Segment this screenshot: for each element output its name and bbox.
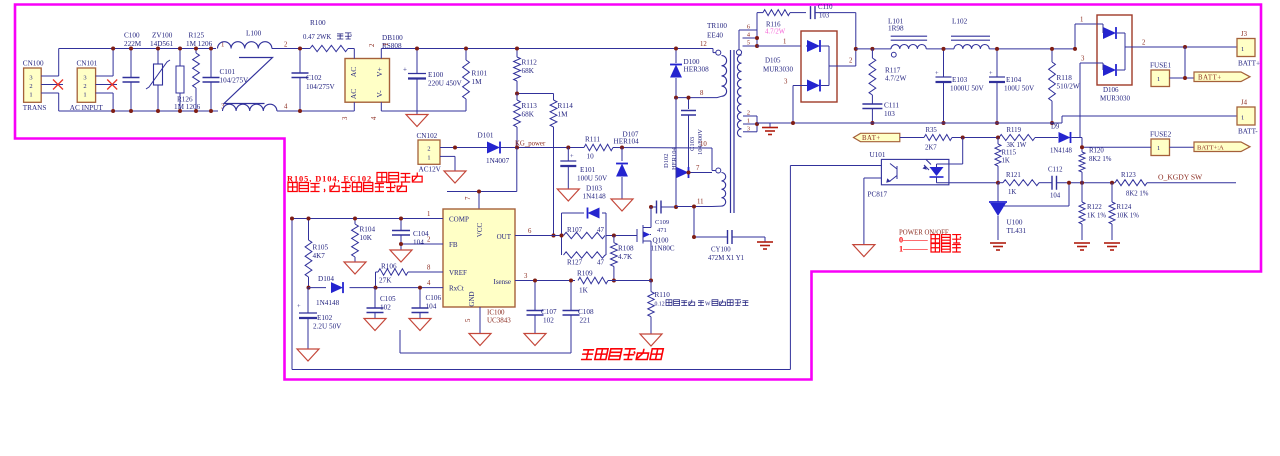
svg-text:KG_power: KG_power <box>515 141 546 148</box>
svg-text:R100: R100 <box>310 19 326 27</box>
wire opto emitter <box>864 177 882 179</box>
svg-text:68K: 68K <box>522 67 535 75</box>
svg-text:12: 12 <box>700 41 707 48</box>
resistor R118 <box>1051 49 1053 62</box>
svg-text:V-: V- <box>375 90 384 98</box>
svg-text:222M: 222M <box>124 40 142 48</box>
electrolytic capacitor E100 <box>416 49 418 74</box>
junction sec stub4 <box>755 36 759 40</box>
svg-text:R127: R127 <box>567 259 583 267</box>
diode D9 <box>1059 132 1071 143</box>
junction C101 bottom <box>209 109 213 113</box>
svg-text:HER104: HER104 <box>671 147 678 171</box>
svg-text:1N4148: 1N4148 <box>316 299 340 307</box>
wire R114 down to OUT row <box>553 127 555 236</box>
svg-text:1———: 1——— <box>899 245 928 254</box>
ground E101 <box>557 189 579 201</box>
resistor R35 <box>924 135 952 141</box>
wire VREF row <box>408 271 443 273</box>
junction C102 top <box>298 47 302 51</box>
electrolytic capacitor E103 <box>943 49 945 77</box>
junction pin11 <box>692 205 696 209</box>
svg-text:R114: R114 <box>558 102 574 110</box>
svg-text:3: 3 <box>784 79 788 86</box>
wire D9 node down <box>1081 138 1083 151</box>
resistor R104 <box>354 219 356 225</box>
resistor R100 <box>310 45 348 51</box>
svg-text:1K: 1K <box>1002 158 1010 165</box>
svg-text:D106: D106 <box>1103 86 1119 94</box>
svg-text:3: 3 <box>342 116 349 120</box>
svg-text:CN100: CN100 <box>23 60 44 68</box>
connector CN100 <box>24 68 42 102</box>
capacitor C100 <box>130 49 132 78</box>
svg-text:3: 3 <box>83 74 86 81</box>
wire COMP row <box>292 218 443 220</box>
svg-text:68K: 68K <box>522 111 535 119</box>
wire CY100 row <box>694 236 728 238</box>
junction E103 bottom <box>942 121 946 125</box>
svg-text:1M: 1M <box>558 111 569 119</box>
junction R101 top <box>464 47 468 51</box>
svg-text:1M 1206: 1M 1206 <box>186 40 213 48</box>
svg-text:1: 1 <box>1241 114 1244 121</box>
wire DB100 AC top stem <box>353 49 355 59</box>
junction E104 bottom <box>995 121 999 125</box>
svg-text:VCC: VCC <box>476 222 484 237</box>
capacitor C110 <box>811 6 816 19</box>
wire secondary top stubs <box>739 29 757 31</box>
earth ground R122 <box>1074 242 1090 244</box>
junction C103 top <box>687 96 691 100</box>
junction KG R113 <box>515 146 519 150</box>
svg-text:104: 104 <box>426 303 437 311</box>
wire CN100 pin1 <box>41 92 59 94</box>
svg-text:10K 1%: 10K 1% <box>1117 213 1140 220</box>
svg-text:4K7: 4K7 <box>313 252 326 260</box>
wire D105 out <box>837 65 856 67</box>
svg-text:FUSE1: FUSE1 <box>1150 62 1172 70</box>
junction R120 bottom <box>1080 181 1084 185</box>
junction R115 bottom <box>996 181 1000 185</box>
svg-text:471: 471 <box>657 227 667 234</box>
junction CY100 left <box>692 235 696 239</box>
svg-text:PC817: PC817 <box>868 191 888 199</box>
svg-text:0.12: 0.12 <box>655 302 665 308</box>
svg-text:3: 3 <box>747 126 750 133</box>
capacitor C105 <box>374 288 376 308</box>
svg-text:HER104: HER104 <box>614 138 640 146</box>
svg-text:+: + <box>570 153 574 160</box>
junction C103 bottom <box>687 171 691 175</box>
svg-text:UC3843: UC3843 <box>487 317 511 325</box>
op-amp/controller IC100 UC3843 <box>443 209 515 307</box>
wire D100 column down <box>675 98 677 207</box>
ground C106 <box>409 319 431 331</box>
capacitor C101 <box>210 49 212 78</box>
svg-text:W: W <box>705 302 711 308</box>
svg-text:1M: 1M <box>472 78 483 86</box>
svg-text:R104: R104 <box>360 226 376 234</box>
junction R115 top <box>996 136 1000 140</box>
svg-text:27K: 27K <box>379 277 392 285</box>
svg-text:1K: 1K <box>1008 189 1016 196</box>
svg-text:R121: R121 <box>1006 172 1021 179</box>
svg-text:C110: C110 <box>818 4 833 11</box>
svg-text:1: 1 <box>747 118 750 125</box>
junction R104 top <box>353 217 357 221</box>
svg-text:AC: AC <box>349 67 358 78</box>
resistor R101 <box>465 49 467 61</box>
power flag BAT+ <box>854 133 900 141</box>
optocoupler U101 <box>881 159 949 184</box>
svg-text:U101: U101 <box>870 151 886 159</box>
svg-text:5: 5 <box>465 318 472 322</box>
junction R106-RxCt <box>374 286 378 290</box>
capacitor C108 <box>570 281 572 311</box>
junction R126 top <box>178 47 182 51</box>
svg-text:U100: U100 <box>1007 219 1023 227</box>
svg-text:C104: C104 <box>413 230 429 238</box>
wire RxCt row <box>350 287 444 289</box>
svg-text:ZV100: ZV100 <box>152 32 173 40</box>
capacitor C111 <box>862 104 882 109</box>
junction D100 top <box>674 47 678 51</box>
svg-text:2: 2 <box>427 146 430 153</box>
resistor R116 <box>757 12 763 14</box>
svg-text:BATT-: BATT- <box>1238 128 1258 136</box>
ground C105 <box>364 319 386 331</box>
capacitor C106 <box>419 288 421 308</box>
svg-text:R112: R112 <box>522 59 538 67</box>
pin 4 label DB100 <box>371 116 378 120</box>
svg-text:E102: E102 <box>317 314 333 322</box>
svg-text:C102: C102 <box>306 74 322 82</box>
svg-text:Isense: Isense <box>494 278 512 286</box>
junction sec stub5 <box>755 44 759 48</box>
resistor R115 <box>997 138 999 145</box>
svg-text:CY100: CY100 <box>711 247 731 254</box>
wire feedback down <box>789 166 791 370</box>
junction ZV100 bottom <box>156 109 160 113</box>
junction C106 top <box>418 286 422 290</box>
svg-text:10K: 10K <box>360 234 373 242</box>
svg-text:221: 221 <box>580 317 591 325</box>
svg-text:RxCt: RxCt <box>449 285 464 293</box>
electrolytic capacitor E102 <box>307 288 309 313</box>
svg-text:R117: R117 <box>885 67 901 75</box>
svg-text:TL431: TL431 <box>1007 227 1027 235</box>
wire opto cathode <box>937 182 999 184</box>
wire VCC feed <box>447 191 517 193</box>
annotation soft-start text line2 <box>288 183 297 192</box>
junction R117 top <box>870 47 874 51</box>
resistor R112 <box>516 49 518 58</box>
svg-text:0———: 0——— <box>899 236 928 245</box>
wire L100 pin2 to R100 <box>272 48 310 50</box>
svg-text:2: 2 <box>29 83 32 90</box>
junction pin8 <box>674 96 678 100</box>
fuse FUSE1 <box>1184 47 1186 78</box>
junction CN102 pin2 wire <box>453 146 457 150</box>
pin 3 label DB100 <box>342 116 349 120</box>
wire DB100 V+ stem <box>380 49 382 59</box>
svg-text:R111: R111 <box>585 136 600 144</box>
svg-text:1: 1 <box>1157 145 1160 152</box>
transformer aux winding <box>716 168 721 173</box>
svg-text:1: 1 <box>1157 76 1160 83</box>
svg-text:2K7: 2K7 <box>925 145 937 152</box>
svg-text:3: 3 <box>1081 56 1085 63</box>
wire DB100 V- stem <box>380 102 382 111</box>
ground E100 <box>416 111 418 115</box>
svg-text:R122: R122 <box>1087 204 1102 211</box>
capacitor C107 <box>534 281 536 311</box>
wire R35 to R119 <box>952 137 999 139</box>
transformer core <box>730 50 732 213</box>
svg-text:C108: C108 <box>578 308 594 316</box>
svg-text:C103: C103 <box>689 137 696 151</box>
wire trio right vertical <box>605 213 607 255</box>
junction C109 left <box>649 205 653 209</box>
junction C104 top <box>399 217 403 221</box>
wire D106 pin3 <box>1080 62 1097 64</box>
svg-text:1: 1 <box>427 155 430 162</box>
diode D104 <box>309 287 327 289</box>
wire L100 pin4 bus <box>277 110 354 112</box>
electrolytic capacitor E101 <box>567 148 569 162</box>
connector CN102 <box>418 140 440 164</box>
wire KGDY out <box>1147 182 1236 184</box>
wire FB row <box>401 243 443 245</box>
svg-text:104: 104 <box>1050 193 1061 200</box>
resistor R125 <box>195 49 197 54</box>
ground IC100 GND pin <box>479 307 481 334</box>
pin 7 label VCC <box>465 196 472 200</box>
svg-text:2: 2 <box>747 110 750 117</box>
svg-text:14D561: 14D561 <box>150 40 174 48</box>
svg-text:R109: R109 <box>577 270 593 278</box>
rectifier D106 <box>1097 15 1132 85</box>
annotation switching power section <box>581 350 594 360</box>
wire R111 to D107 <box>613 147 712 150</box>
svg-text:R105: R105 <box>313 244 329 252</box>
wire C110 drop <box>855 13 857 66</box>
capacitor CY100 <box>728 230 733 244</box>
svg-text:1: 1 <box>1241 46 1244 53</box>
junction E103 top <box>942 47 946 51</box>
svg-text:R120: R120 <box>1089 148 1104 155</box>
wire BAT+ to R35 <box>900 137 924 139</box>
wire CN100 pin2 <box>41 84 63 86</box>
wire gate <box>606 235 637 237</box>
svg-text:OUT: OUT <box>497 233 512 241</box>
junction C102 bottom <box>298 109 302 113</box>
svg-text:D9: D9 <box>1051 124 1060 131</box>
svg-text:+: + <box>989 70 993 77</box>
svg-text:CN102: CN102 <box>417 132 438 140</box>
resistor R127 <box>564 252 606 258</box>
rectifier D105 <box>801 31 837 102</box>
svg-text:D103: D103 <box>586 185 602 193</box>
wire AC top bus <box>59 48 216 50</box>
wire secondary return rail <box>757 122 1062 124</box>
svg-text:MUR3030: MUR3030 <box>763 66 793 74</box>
capacitor C102 <box>299 49 301 74</box>
fuse FUSE2 <box>1151 139 1170 156</box>
junction FUSE1 wire <box>1183 76 1187 80</box>
wire CN102 pin1 <box>440 155 455 157</box>
svg-text:102: 102 <box>380 304 391 312</box>
wire pin8 row <box>676 97 717 99</box>
svg-text:D102: D102 <box>663 154 670 168</box>
svg-text:47: 47 <box>597 226 605 234</box>
varistor ZV100 <box>157 49 159 65</box>
junction R118 top <box>1050 47 1054 51</box>
ground C104 <box>390 250 412 262</box>
resistor R107 <box>564 232 606 238</box>
wire pin11 row <box>676 206 712 208</box>
svg-text:2.2U 50V: 2.2U 50V <box>313 323 342 331</box>
diode D103 <box>562 212 585 214</box>
svg-text:1K: 1K <box>579 287 589 295</box>
wire VCC stem <box>478 192 480 210</box>
svg-text:7: 7 <box>465 196 472 200</box>
resistor R106 <box>378 269 408 275</box>
svg-text:COMP: COMP <box>449 216 469 224</box>
svg-text:5: 5 <box>747 40 750 47</box>
svg-text:BATT+:A: BATT+:A <box>1197 145 1224 152</box>
wire TL431 ref <box>1004 205 1069 207</box>
power flag BATT+ <box>1194 72 1250 82</box>
svg-text:104: 104 <box>413 239 424 247</box>
wire rail L101-L102 <box>926 48 954 50</box>
svg-text:TR100: TR100 <box>707 22 727 30</box>
svg-text:2: 2 <box>369 43 376 47</box>
svg-text:CN101: CN101 <box>77 60 98 68</box>
wire feedback bottom run <box>292 369 790 371</box>
svg-text:2: 2 <box>849 58 853 65</box>
svg-text:D101: D101 <box>478 132 494 140</box>
junction out FUSE1 drop <box>1183 45 1187 49</box>
svg-text:V+: V+ <box>375 67 384 77</box>
svg-text:1N4148: 1N4148 <box>583 193 607 201</box>
svg-text:D105: D105 <box>765 57 781 65</box>
svg-text:4: 4 <box>284 104 288 111</box>
resistor R120 <box>1081 150 1083 152</box>
junction R108 bottom <box>612 279 616 283</box>
svg-text:102: 102 <box>543 317 554 325</box>
svg-text:DB100: DB100 <box>382 34 403 42</box>
resistor R119 <box>999 135 1035 141</box>
ground R104 <box>344 262 366 274</box>
svg-text:1R98: 1R98 <box>888 25 904 33</box>
svg-text:C101: C101 <box>220 68 236 76</box>
svg-text:220U 450V: 220U 450V <box>428 80 463 88</box>
svg-text:AC12V: AC12V <box>419 166 442 174</box>
svg-text:C109: C109 <box>655 219 669 226</box>
junction D105 pin3 rail <box>791 121 795 125</box>
junction R112 top <box>515 47 519 51</box>
pin 2 label DB100 <box>369 43 376 47</box>
svg-text:E101: E101 <box>580 166 596 174</box>
svg-text:C112: C112 <box>1048 167 1063 174</box>
ground D107 <box>611 199 633 211</box>
svg-text:R35: R35 <box>926 127 938 134</box>
transformer primary winding <box>716 50 721 55</box>
junction trio left <box>560 234 564 238</box>
wire OUT row <box>515 235 562 237</box>
resistor R113 <box>516 94 518 101</box>
bridge rectifier DB100 <box>345 59 390 103</box>
svg-text:8: 8 <box>700 90 704 97</box>
junction opto anode <box>961 136 965 140</box>
svg-text:+: + <box>935 70 939 77</box>
junction TL431 ref <box>1067 181 1071 185</box>
svg-text:10: 10 <box>700 141 707 148</box>
wire AC bottom bus <box>59 110 218 112</box>
inductor L102 <box>954 45 989 49</box>
wire KG vertical to VCC <box>516 148 518 192</box>
wire rail to D106 pin1 <box>1074 24 1076 49</box>
svg-text:1K 1%: 1K 1% <box>1087 213 1106 220</box>
wire R121 to C112 <box>1039 182 1052 184</box>
svg-text:C106: C106 <box>426 294 442 302</box>
svg-text:C105: C105 <box>380 295 396 303</box>
svg-text:C100: C100 <box>124 32 140 40</box>
diode D107 <box>621 148 623 162</box>
junction FUSE2 tap <box>1080 145 1084 149</box>
svg-text:1: 1 <box>83 91 86 98</box>
wire D105 pin3 down <box>792 86 794 124</box>
svg-text:E104: E104 <box>1006 76 1022 84</box>
wire output rail <box>856 48 891 50</box>
wire CN102 pin2 <box>440 147 488 149</box>
junction C108 top <box>569 279 573 283</box>
junction sec stub1 <box>755 122 759 126</box>
earth ground U100 <box>990 242 1006 244</box>
svg-text:R106: R106 <box>381 263 397 271</box>
ground E102 <box>297 349 319 361</box>
svg-text:R110: R110 <box>655 291 671 299</box>
junction top bus CN101 <box>111 47 115 51</box>
transistor Q100 11N80C <box>636 229 638 242</box>
svg-text:1N4007: 1N4007 <box>486 157 510 165</box>
svg-text:R107: R107 <box>567 226 583 234</box>
junction D107 top <box>620 146 624 150</box>
svg-text:R115: R115 <box>1002 150 1017 157</box>
wire CN101 pin2 <box>96 84 117 86</box>
junction gate R108 <box>612 234 616 238</box>
junction C111 bottom <box>870 121 874 125</box>
svg-text:J4: J4 <box>1241 100 1248 107</box>
svg-text:1: 1 <box>383 43 390 46</box>
transformer secondary winding <box>736 50 741 55</box>
junction R105 bottom <box>307 286 311 290</box>
resistor R124 <box>1111 183 1113 202</box>
junction C101 top <box>209 47 213 51</box>
svg-text:1: 1 <box>29 91 32 98</box>
resistor R117 <box>871 49 873 58</box>
connector J4 <box>1237 107 1255 125</box>
wire opto anode path <box>962 138 964 165</box>
svg-text:MUR3030: MUR3030 <box>1100 95 1130 103</box>
svg-text:104/275V: 104/275V <box>306 83 336 91</box>
wire DB100 AC bottom stem <box>353 102 355 111</box>
diode D102 <box>677 167 689 178</box>
capacitor C112 <box>1052 176 1057 190</box>
svg-text:R116: R116 <box>766 22 781 29</box>
